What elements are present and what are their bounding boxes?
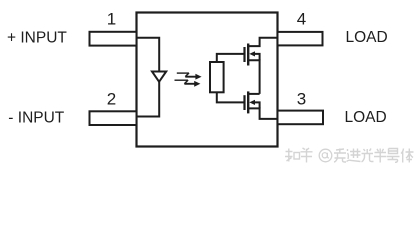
svg-text:1: 1 xyxy=(107,9,116,28)
IC package body U1 xyxy=(137,13,278,147)
watermark char 体 xyxy=(401,149,414,163)
LED D1 (input LED) xyxy=(152,72,166,82)
svg-text:2: 2 xyxy=(107,89,116,108)
pin 4 pad xyxy=(278,32,323,46)
wire PV1 bottom to Q2 gate xyxy=(217,92,244,102)
MOSFET Q2 body arrow head xyxy=(249,100,255,105)
pin 2 pad xyxy=(90,111,137,125)
watermark @ xyxy=(319,149,332,162)
MOSFET Q2 gate bar xyxy=(243,95,245,110)
wire Q1 source to common node xyxy=(248,60,259,94)
watermark char 知 xyxy=(285,149,293,162)
wire Q2 drain to pin 3 xyxy=(248,108,277,119)
MOSFET Q1 channel bar xyxy=(247,44,249,66)
watermark: 知乎 @先进光半导体 (drawn as light vector strokes) xyxy=(285,148,313,163)
light arrow upper xyxy=(177,73,196,77)
MOSFET Q2 body arrow link xyxy=(253,102,260,108)
wire LED cathode to pin 2 xyxy=(137,82,160,117)
svg-text:LOAD: LOAD xyxy=(345,109,387,126)
MOSFET Q1 gate bar xyxy=(243,47,245,62)
MOSFET Q2 channel bar xyxy=(247,91,249,113)
wire Q2 source to common node xyxy=(248,93,259,95)
photodiode array PV1 xyxy=(210,62,224,92)
watermark char 光 xyxy=(362,149,374,162)
wire pin1 to LED anode xyxy=(137,38,160,72)
watermark char 乎 xyxy=(301,148,313,163)
wire Q1 drain to pin 4 xyxy=(248,38,277,46)
pin 3 pad xyxy=(278,111,324,125)
wire PV1 top to Q1 gate xyxy=(217,54,244,62)
svg-text:+ INPUT: + INPUT xyxy=(7,29,67,46)
watermark char 先 xyxy=(334,149,346,163)
svg-text:3: 3 xyxy=(297,89,306,108)
svg-text:- INPUT: - INPUT xyxy=(8,109,65,126)
svg-text:LOAD: LOAD xyxy=(346,29,388,46)
watermark char 导 xyxy=(387,149,400,163)
MOSFET Q1 body arrow link xyxy=(253,54,260,60)
svg-text:4: 4 xyxy=(297,9,306,28)
light arrow lower xyxy=(175,80,195,84)
MOSFET Q1 body arrow head xyxy=(249,51,255,56)
pin 1 pad xyxy=(90,32,137,46)
watermark char 半 xyxy=(374,149,387,163)
watermark char 进 xyxy=(347,149,361,162)
